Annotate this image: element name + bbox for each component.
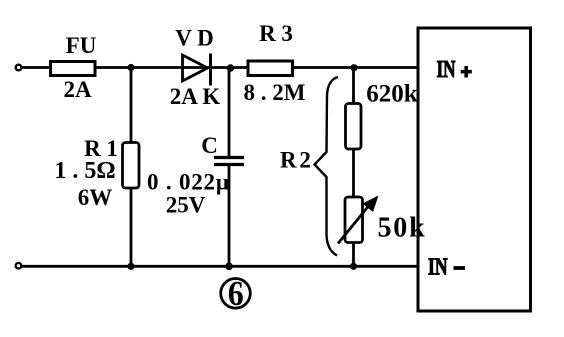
label 8.2M (R3 value) — [244, 80, 306, 105]
wire top: terminal to fuse — [22, 66, 51, 69]
label 2A K (diode rating and cathode) — [170, 84, 221, 109]
wire: between 620k and 50k — [352, 149, 355, 197]
wire: R1 bottom lead — [130, 188, 133, 267]
label 6W (R1 power) — [78, 185, 113, 210]
svg-text:8 . 2M: 8 . 2M — [244, 80, 306, 105]
wire top: R3 to box — [293, 66, 418, 69]
label 0.022uF (C value) — [147, 170, 230, 195]
label 50k — [378, 213, 427, 244]
label R1 — [84, 136, 118, 161]
svg-text:C: C — [201, 133, 218, 158]
IC box — [418, 28, 531, 311]
label 2A (fuse rating) — [63, 77, 92, 102]
label VD — [175, 26, 214, 51]
label 25V (C voltage) — [166, 193, 206, 218]
label FU — [66, 33, 97, 58]
svg-text:6: 6 — [228, 274, 244, 313]
node: junction 50k bottom — [350, 263, 357, 270]
svg-text:25V: 25V — [166, 193, 206, 218]
wire top: fuse to diode — [97, 66, 183, 69]
svg-text:FU: FU — [66, 33, 97, 58]
potentiometer 50k (lower part of R2) — [338, 196, 379, 244]
wire: 620k top lead — [352, 68, 355, 105]
pin label IN- — [428, 253, 465, 280]
terminal bottom-left input — [16, 263, 22, 269]
label 620k — [366, 81, 418, 108]
label C — [201, 133, 218, 158]
resistor 620k (upper part of R2) — [346, 104, 362, 150]
wire bottom — [22, 265, 419, 268]
wire: inside diode to R3 — [182, 66, 248, 69]
diode VD — [183, 54, 211, 86]
resistor R1 — [123, 143, 140, 189]
pin label IN+ — [437, 56, 472, 83]
svg-text:1 . 5Ω: 1 . 5Ω — [54, 158, 115, 184]
terminal top-left input — [16, 65, 22, 71]
svg-text:2A: 2A — [63, 77, 92, 102]
node: junction fuse/R1 — [127, 64, 134, 71]
label R2 — [280, 148, 310, 173]
svg-text:R 2: R 2 — [280, 148, 310, 173]
node: junction R3/620k — [350, 64, 357, 71]
wire: 50k bottom lead — [352, 243, 355, 267]
node: junction R1 bottom — [127, 263, 134, 270]
brace for R2 — [315, 77, 339, 256]
wire: C top lead — [228, 68, 231, 157]
capacitor C — [214, 158, 244, 165]
figure number 6 — [221, 274, 251, 313]
svg-text:6W: 6W — [78, 185, 113, 210]
node: junction C bottom — [225, 263, 233, 271]
svg-text:0 . 022μ: 0 . 022μ — [147, 170, 230, 195]
svg-text:R 3: R 3 — [259, 21, 293, 46]
svg-text:620k: 620k — [366, 81, 418, 108]
node: junction diode/C — [227, 64, 235, 72]
fuse FU — [51, 62, 96, 76]
svg-text:IN: IN — [437, 56, 456, 83]
svg-text:V D: V D — [175, 26, 214, 51]
resistor R3 — [248, 61, 293, 76]
label 1.5ohm (R1 value) — [54, 158, 115, 184]
label R3 — [259, 21, 293, 46]
wire: R1 top lead — [130, 68, 133, 144]
svg-text:2A K: 2A K — [170, 84, 221, 109]
svg-text:IN: IN — [428, 253, 448, 280]
wire: C bottom lead — [228, 165, 231, 267]
